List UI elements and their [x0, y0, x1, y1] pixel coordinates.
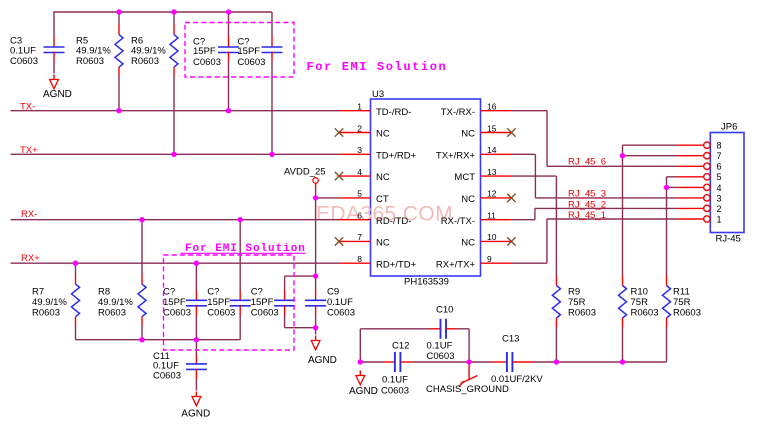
ground AGND below C11	[192, 392, 201, 406]
wire cap2 to TX+	[271, 62, 273, 155]
svg-text:R0603: R0603	[76, 56, 104, 67]
svg-text:C0603: C0603	[163, 308, 191, 319]
wire C10 branch top-left	[360, 328, 430, 330]
wire R8 top	[141, 220, 143, 274]
underline of bottom EMI text	[181, 252, 306, 254]
pin lead R7 top	[75, 274, 77, 284]
capacitor C13	[507, 352, 513, 372]
svg-text:8: 8	[357, 254, 362, 264]
svg-text:C0603: C0603	[251, 308, 279, 319]
pin 4 stub (NC)	[339, 175, 371, 177]
wire rail seg3	[534, 361, 667, 363]
pin lead bcap2 top	[239, 291, 241, 301]
junction top bus / R6	[171, 9, 176, 14]
wire RJ_45_6 to JP6 pin6	[547, 165, 677, 167]
power symbol AVDD_25	[313, 178, 319, 184]
pin lead bcap2 bottom	[239, 306, 241, 316]
svg-text:75R: 75R	[631, 297, 649, 308]
svg-text:2: 2	[717, 204, 722, 214]
pin lead bcap3 bottom	[284, 306, 286, 316]
pin 7 stub (NC)	[339, 240, 371, 242]
wire C10 branch left	[359, 329, 361, 362]
svg-text:7: 7	[717, 151, 722, 161]
pin 2 stub (NC)	[339, 132, 371, 134]
JP6 pin 7 stub	[677, 155, 703, 157]
svg-text:C13: C13	[502, 334, 519, 345]
svg-text:C0603: C0603	[193, 57, 221, 68]
svg-text:C0603: C0603	[327, 308, 355, 319]
junction top bus / C-15PF-1	[226, 9, 231, 14]
wire C10 branch right	[468, 329, 470, 362]
wire RX- net	[11, 219, 340, 221]
no-connect X pin 7	[335, 237, 343, 245]
pin lead R10 bottom	[622, 318, 624, 327]
svg-text:AGND: AGND	[349, 386, 378, 397]
svg-text:RX-/TX-: RX-/TX-	[441, 216, 475, 227]
JP6 pin 2 circle	[704, 205, 710, 211]
svg-text:0.1UF: 0.1UF	[327, 297, 353, 308]
svg-text:C0603: C0603	[10, 56, 38, 67]
pin 5 stub	[339, 197, 371, 199]
wire JP6 pin5 drop	[666, 177, 668, 188]
svg-text:75R: 75R	[673, 297, 691, 308]
wire left ground rail	[76, 339, 241, 341]
svg-text:6: 6	[717, 162, 722, 172]
resistor R9	[552, 286, 560, 319]
ground AGND below C3	[50, 75, 59, 89]
svg-text:R0603: R0603	[98, 308, 126, 319]
svg-text:CT: CT	[376, 194, 389, 205]
junction RX- / bottom cap2	[238, 217, 243, 222]
wire pin11 vertical	[534, 208, 536, 219]
wire top cap1	[228, 12, 230, 37]
svg-text:RX-: RX-	[21, 209, 37, 220]
svg-text:C?: C?	[207, 287, 219, 298]
junction RX+ / R7	[73, 261, 78, 266]
svg-text:3: 3	[357, 145, 362, 155]
wire JP6 pin7	[623, 155, 678, 157]
connector JP6 body	[710, 133, 744, 233]
svg-text:AGND: AGND	[181, 409, 210, 420]
JP6 pin 6 stub	[677, 165, 703, 167]
resistor R10	[619, 286, 627, 319]
wire AVDD vertical	[315, 188, 317, 276]
pin lead R9 top	[555, 276, 557, 286]
svg-text:C?: C?	[251, 287, 263, 298]
svg-text:RJ-45: RJ-45	[716, 234, 741, 245]
JP6 pin 3 stub	[677, 197, 703, 199]
svg-text:JP6: JP6	[721, 122, 737, 133]
pin lead cap1 top	[228, 37, 230, 47]
svg-text:NC: NC	[461, 129, 475, 140]
svg-text:U3: U3	[372, 89, 384, 100]
resistor R8	[138, 284, 146, 317]
pin lead R10 top	[622, 276, 624, 286]
pin lead C13 left	[492, 361, 507, 363]
junction R6 / TX+	[171, 152, 176, 157]
capacitor C11	[186, 364, 207, 370]
junction rail / chassis	[466, 359, 471, 364]
capacitor C? 15PF top-2	[262, 47, 283, 53]
no-connect X pin 4	[335, 172, 343, 180]
wire MCT vertical	[555, 176, 557, 275]
JP6 pin 7 circle	[704, 153, 710, 159]
wire to R10	[622, 156, 624, 276]
capacitor C10	[441, 319, 447, 339]
no-connect X pin 2	[335, 128, 343, 136]
svg-text:C0603: C0603	[381, 386, 409, 397]
wire pin9	[511, 262, 547, 264]
wire TX+ net	[11, 153, 340, 155]
svg-text:3: 3	[717, 193, 722, 203]
resistor R5	[115, 35, 123, 68]
IC U3 body	[371, 99, 481, 276]
wire loop top	[285, 275, 316, 277]
resistor R11	[663, 286, 671, 319]
junction RX+ / bottom cap1	[194, 261, 199, 266]
junction R8 / left rail	[139, 337, 144, 342]
wire R5 top	[118, 12, 120, 25]
svg-text:R11: R11	[673, 287, 690, 298]
svg-text:AGND: AGND	[43, 89, 72, 100]
svg-text:C12: C12	[392, 341, 409, 352]
svg-text:CHASIS_GROUND: CHASIS_GROUND	[426, 384, 509, 395]
pin lead C11 bottom	[195, 369, 197, 379]
junction R5 / TX-	[116, 108, 121, 113]
no-connect X pin 15	[507, 128, 515, 136]
junction cap1 / TX-	[226, 108, 231, 113]
junction R9 / rail	[554, 359, 559, 364]
capacitor C? 15PF bottom-3	[274, 300, 295, 306]
wire bcap3 bottom	[284, 316, 286, 328]
resistor R6	[170, 35, 178, 68]
junction JP6 pin7/pin8	[620, 153, 625, 158]
svg-text:TD-/RD-: TD-/RD-	[376, 107, 411, 118]
junction loop bottom / AGND	[313, 325, 318, 330]
svg-text:R0603: R0603	[631, 308, 659, 319]
wire C11 top	[195, 340, 197, 355]
svg-text:RD-/TD-: RD-/TD-	[376, 216, 411, 227]
svg-text:49.9/1%: 49.9/1%	[32, 297, 67, 308]
svg-text:4: 4	[717, 183, 722, 193]
wire bcap2 to rail	[239, 316, 241, 340]
pin lead R6 bottom	[173, 67, 175, 76]
junction RX- / R8	[139, 217, 144, 222]
svg-text:R0603: R0603	[568, 308, 596, 319]
wire to AGND below C9	[315, 328, 317, 335]
svg-text:RX+/TX+: RX+/TX+	[436, 259, 476, 270]
svg-text:RD+/TD+: RD+/TD+	[376, 259, 417, 270]
junction AVDD / loop top	[313, 273, 318, 278]
JP6 pin 8 circle	[704, 142, 710, 148]
svg-text:R0603: R0603	[673, 308, 701, 319]
wire loop bottom	[285, 327, 316, 329]
wire pin9 vertical	[546, 219, 548, 263]
capacitor C? 15PF bottom-2	[230, 300, 251, 306]
wire JP6 pin8 drop	[622, 145, 624, 156]
JP6 pin 6 circle	[704, 163, 710, 169]
svg-text:NC: NC	[376, 238, 390, 249]
wire R6 to TX+	[173, 76, 175, 154]
wire pin16 vertical	[546, 111, 548, 167]
pin lead C3 top	[53, 37, 55, 47]
pin 9 stub	[481, 262, 512, 264]
wire JP6 pin5	[667, 176, 678, 178]
pin lead C12 left	[384, 361, 395, 363]
pin 15 stub (NC)	[481, 132, 512, 134]
pin lead C3 bottom	[53, 52, 55, 62]
junction R10 / rail	[620, 359, 625, 364]
pin 10 stub (NC)	[481, 240, 512, 242]
svg-text:C0603: C0603	[427, 351, 455, 362]
pin 13 stub	[481, 175, 512, 177]
pin lead cap2 bottom	[271, 52, 273, 62]
svg-text:C10: C10	[436, 305, 453, 316]
pin lead bcap1 top	[195, 291, 197, 301]
ground AGND below C9	[311, 336, 320, 350]
resistor R7	[72, 284, 80, 317]
wire cap1 to TX-	[228, 62, 230, 111]
svg-text:RX+: RX+	[21, 253, 40, 264]
svg-text:4: 4	[357, 167, 362, 177]
dashed EMI box (bottom)	[164, 255, 295, 350]
svg-text:7: 7	[357, 232, 362, 242]
JP6 pin 8 stub	[677, 144, 703, 146]
chassis ground symbol	[459, 363, 478, 387]
pin lead C10 right	[446, 328, 456, 330]
wire RJ_45_1 to JP6 pin1	[547, 218, 678, 220]
wire pin16	[511, 110, 547, 112]
svg-text:6: 6	[357, 211, 362, 221]
pin lead bcap1 bottom	[195, 306, 197, 316]
wire JP6 pin8	[623, 144, 678, 146]
svg-text:RJ_45_1: RJ_45_1	[568, 210, 606, 221]
svg-text:15PF: 15PF	[207, 297, 230, 308]
svg-text:RJ_45_2: RJ_45_2	[568, 199, 606, 210]
svg-text:C0603: C0603	[153, 371, 181, 382]
wire TX- net	[11, 110, 340, 112]
JP6 pin 3 circle	[704, 195, 710, 201]
wire MCT	[511, 175, 556, 177]
wire R10 to rail	[622, 327, 624, 362]
pin lead cap1 bottom	[228, 52, 230, 62]
junction JP6 pin4/pin5	[664, 185, 669, 190]
svg-text:0.1UF: 0.1UF	[427, 341, 453, 352]
svg-text:R0603: R0603	[32, 308, 60, 319]
svg-text:49.9/1%: 49.9/1%	[98, 297, 133, 308]
capacitor C12	[395, 352, 401, 372]
wire rail seg1	[360, 361, 384, 363]
svg-text:15PF: 15PF	[163, 297, 186, 308]
pin 12 stub (NC)	[481, 197, 512, 199]
capacitor C9	[305, 300, 326, 306]
pin lead R11 top	[666, 276, 668, 286]
pin lead R7 bottom	[75, 317, 77, 326]
pin lead R5 bottom	[118, 67, 120, 76]
pin lead cap2 top	[271, 37, 273, 47]
wire C9 top	[315, 276, 317, 290]
pin lead bcap3 top	[284, 291, 286, 301]
svg-text:C?: C?	[163, 287, 175, 298]
wire RJ_45_3 to JP6 pin3	[535, 197, 677, 199]
wire R6 top	[173, 12, 175, 25]
wire rail seg2	[412, 361, 493, 363]
wire C3 to AGND	[53, 62, 55, 74]
JP6 pin 4 circle	[704, 184, 710, 190]
svg-text:75R: 75R	[568, 297, 586, 308]
svg-text:15PF: 15PF	[237, 46, 260, 57]
svg-text:R9: R9	[568, 287, 580, 298]
wire top cap2	[271, 12, 273, 37]
wire to R11	[666, 187, 668, 275]
pin lead C13 right	[513, 361, 534, 363]
pin 8 stub	[339, 262, 371, 264]
pin lead C11 top	[195, 355, 197, 365]
pin 1 stub	[339, 110, 371, 112]
wire R11 to rail	[666, 327, 668, 362]
svg-text:RJ_45_6: RJ_45_6	[568, 156, 606, 167]
svg-text:R7: R7	[32, 287, 44, 298]
svg-text:C0603: C0603	[237, 57, 265, 68]
pin lead AVDD	[315, 183, 317, 188]
wire C9 bottom	[315, 316, 317, 328]
svg-text:For EMI Solution: For EMI Solution	[307, 60, 448, 74]
junction rail left / AGND	[358, 359, 363, 364]
wire C10 branch top-right	[457, 328, 470, 330]
capacitor C? 15PF bottom-1	[186, 300, 207, 306]
capacitor C3	[44, 47, 65, 53]
pin lead R8 bottom	[141, 317, 143, 326]
wire top bus	[53, 11, 272, 13]
wire R7 to rail	[75, 326, 77, 340]
junction bcap1 / rail / C11	[194, 337, 199, 342]
svg-text:8: 8	[717, 141, 722, 151]
dashed EMI box (top)	[185, 23, 294, 78]
pin lead C9 bottom	[315, 306, 317, 316]
svg-text:R10: R10	[631, 287, 648, 298]
wire C11 to AGND	[195, 379, 197, 391]
svg-text:5: 5	[357, 189, 362, 199]
wire bottom cap2 top	[239, 220, 241, 291]
wire bcap1 to rail	[195, 316, 197, 340]
JP6 pin 1 circle	[704, 216, 710, 222]
junction AVDD / CT pin 5	[313, 195, 318, 200]
svg-text:1: 1	[357, 102, 362, 112]
svg-text:NC: NC	[461, 194, 475, 205]
svg-text:PH163539: PH163539	[404, 277, 449, 288]
pin lead C12 right	[401, 361, 412, 363]
svg-text:MCT: MCT	[454, 172, 475, 183]
svg-text:0.1UF: 0.1UF	[382, 375, 408, 386]
svg-text:R0603: R0603	[131, 56, 159, 67]
JP6 pin 5 circle	[704, 174, 710, 180]
svg-text:TD+/RD+: TD+/RD+	[376, 150, 417, 161]
JP6 pin 5 stub	[677, 176, 703, 178]
pin lead R5 top	[118, 25, 120, 35]
no-connect X pin 10	[507, 237, 515, 245]
svg-text:5: 5	[717, 172, 722, 182]
wire bottom cap1 top	[195, 263, 197, 290]
ground AGND rail left	[356, 371, 365, 385]
wire R9 to rail	[555, 327, 557, 362]
svg-text:15PF: 15PF	[251, 297, 274, 308]
svg-text:TX-/RX-: TX-/RX-	[441, 107, 475, 118]
no-connect X pin 12	[507, 194, 515, 202]
wire C3 top	[53, 12, 55, 37]
JP6 pin 1 stub	[677, 218, 703, 220]
junction cap2 / TX+	[269, 152, 274, 157]
pin 3 stub	[339, 153, 371, 155]
wire RX+ net	[11, 262, 340, 264]
wire JP6 pin4	[667, 186, 678, 188]
svg-text:RJ_45_3: RJ_45_3	[568, 189, 606, 200]
JP6 pin 4 stub	[677, 186, 703, 188]
wire RJ_45_2 to JP6 pin2	[535, 207, 678, 209]
svg-text:C9: C9	[327, 287, 339, 298]
pin 11 stub	[481, 219, 512, 221]
pin lead C9 top	[315, 291, 317, 301]
svg-text:1: 1	[717, 214, 722, 224]
svg-text:15PF: 15PF	[193, 46, 216, 57]
wire pin14	[511, 153, 535, 155]
pin 14 stub	[481, 153, 512, 155]
pin lead R6 top	[173, 25, 175, 35]
pin 16 stub	[481, 110, 512, 112]
wire pin11	[511, 219, 535, 221]
svg-text:NC: NC	[376, 129, 390, 140]
svg-text:NC: NC	[461, 238, 475, 249]
wire R7 top	[75, 263, 77, 274]
svg-text:R8: R8	[98, 287, 110, 298]
svg-text:2: 2	[357, 123, 362, 133]
JP6 pin 2 stub	[677, 207, 703, 209]
svg-text:NC: NC	[376, 172, 390, 183]
wire pin14 vertical	[534, 154, 536, 198]
pin lead C10 left	[430, 328, 440, 330]
svg-text:AGND: AGND	[308, 355, 337, 366]
wire bcap3 top	[284, 276, 286, 290]
wire CT to pin5	[316, 197, 339, 199]
svg-text:C0603: C0603	[207, 308, 235, 319]
pin lead R9 bottom	[555, 318, 557, 327]
svg-text:AVDD_25: AVDD_25	[284, 167, 326, 178]
svg-text:TX+/RX+: TX+/RX+	[436, 150, 476, 161]
pin lead R11 bottom	[666, 318, 668, 327]
junction top bus / R5	[116, 9, 121, 14]
capacitor C? 15PF top-1	[218, 47, 239, 53]
pin lead R8 top	[141, 274, 143, 284]
svg-text:13: 13	[487, 167, 497, 177]
pin 6 stub	[339, 219, 371, 221]
wire R5 to TX-	[118, 76, 120, 111]
wire R8 to rail	[141, 326, 143, 340]
